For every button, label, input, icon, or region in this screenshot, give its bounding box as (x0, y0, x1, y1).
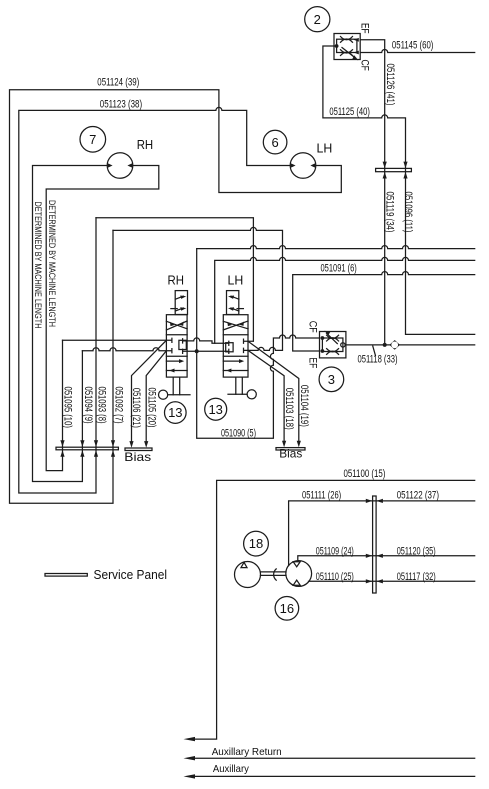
spring box LH valve (227, 291, 239, 315)
svg-text:Service Panel: Service Panel (94, 568, 168, 582)
svg-text:CF: CF (359, 60, 371, 72)
electric motor circle (component 18) (235, 562, 261, 588)
svg-text:EF: EF (306, 357, 318, 368)
wire 051091 (6) to EF port of component 3 (293, 272, 475, 351)
wire 051100 (15) (195, 480, 475, 739)
pilot port circle LH valve (247, 390, 256, 399)
parallel flow section LH (223, 361, 248, 370)
motor LH (hydraulic motor circle) (290, 153, 316, 179)
EF orifice symbol (component 3 bottom) (327, 349, 339, 355)
svg-text:051123 (38): 051123 (38) (100, 99, 142, 111)
quick disconnect symbol (389, 340, 400, 350)
valve body RH (166, 315, 187, 377)
wire 051125 (40) (323, 46, 475, 334)
arrow Auxillary Return (184, 756, 196, 760)
component 18 circle label (244, 531, 269, 556)
component U2 circle label (305, 7, 330, 32)
svg-text:2: 2 (314, 12, 321, 27)
wire 051090 (5) (197, 335, 320, 438)
directional control valve RH (159, 291, 191, 400)
svg-text:13: 13 (208, 402, 222, 417)
svg-text:DETERMINED BY MACHINE LENGTH: DETERMINED BY MACHINE LENGTH (47, 200, 57, 327)
svg-text:DETERMINED BY MACHINE LENGTH: DETERMINED BY MACHINE LENGTH (33, 202, 43, 329)
EF out arrow (component 2) (354, 38, 359, 42)
center section internals LH (226, 343, 233, 352)
spring box RH valve (175, 291, 187, 315)
bulkhead arrows on 051126 line (383, 162, 387, 169)
bias arrows (RH side) (129, 441, 133, 448)
center section internals RH (179, 340, 186, 349)
svg-text:051118 (33): 051118 (33) (358, 353, 398, 365)
wire component 3 outlet / 051118 (33) (346, 344, 475, 346)
directional control valve LH (223, 291, 256, 399)
wire Auxillary (195, 775, 475, 777)
drive shaft (261, 572, 287, 576)
valve body LH (223, 315, 248, 377)
wire 051095 loop (RH motor right to bulkhead) (46, 166, 159, 471)
svg-text:051110 (25): 051110 (25) (316, 571, 354, 583)
pump circle (component 16) (286, 561, 312, 587)
wire EF output / 051126 (41) vertical (360, 40, 385, 345)
service panel bar (56, 447, 118, 450)
bottom bulkhead bar (vertical) (373, 496, 377, 593)
shaft coupling (274, 569, 277, 580)
wire hose 051094 to RH valve lower left port (82, 348, 166, 351)
component 13 circle label (RH valve) (165, 402, 187, 424)
svg-text:051105 (20): 051105 (20) (146, 388, 158, 428)
component 13 circle label (LH valve) (205, 398, 227, 420)
svg-text:Bias: Bias (124, 450, 151, 464)
component 7 circle label (80, 127, 106, 153)
wire hose 051095 to RH valve upper left port (63, 339, 167, 341)
pilot stem LH valve (236, 377, 243, 394)
svg-text:051091 (6): 051091 (6) (321, 263, 357, 275)
parallel flow section RH (166, 361, 187, 370)
svg-text:051124 (39): 051124 (39) (97, 77, 139, 89)
bulkhead arrows 051094 line (80, 440, 84, 447)
bulkhead arrows 051095 line (60, 440, 64, 447)
crossover X section LH (223, 321, 248, 330)
svg-text:051122 (37): 051122 (37) (397, 489, 439, 501)
wire RH-LH lower connector (188, 350, 223, 352)
bias diagonal from LH lower right port (248, 350, 284, 441)
svg-text:7: 7 (89, 132, 96, 147)
svg-text:051125 (40): 051125 (40) (329, 106, 370, 118)
bias diagonal from RH lower port (146, 351, 166, 442)
pilot stem RH valve (173, 377, 180, 395)
CF variable orifice symbol (component 3 top) (324, 331, 338, 344)
bulkhead arrows 051093 line (94, 440, 98, 447)
CF variable orifice symbol (component 2 bottom) (341, 48, 359, 61)
component 16 circle label (275, 597, 299, 621)
svg-text:051104 (19): 051104 (19) (298, 385, 310, 427)
svg-text:051145 (60): 051145 (60) (392, 40, 434, 52)
svg-text:CF: CF (306, 321, 318, 333)
bulkhead arrows on 051111 line (366, 499, 373, 503)
svg-text:051100 (15): 051100 (15) (344, 468, 386, 480)
wire 051145 (60) (360, 50, 475, 53)
svg-text:LH: LH (228, 273, 244, 287)
leader line 051118 (373, 346, 376, 355)
svg-text:16: 16 (280, 601, 294, 616)
svg-text:051092 (7): 051092 (7) (112, 387, 124, 424)
svg-text:Bias: Bias (279, 447, 302, 461)
bias arrows (LH side) (282, 441, 286, 448)
bias bar (RH side) (125, 448, 152, 451)
arrow at end of 051100 wire (184, 737, 196, 741)
bulkhead arrows 051092 line (111, 440, 115, 447)
svg-text:051109 (24): 051109 (24) (316, 545, 354, 557)
svg-text:051111 (26): 051111 (26) (302, 489, 341, 501)
wire L1: hose 051093 to LH valve upper right port (96, 218, 253, 341)
wire from junction to L3 gallery (196, 249, 198, 352)
svg-text:LH: LH (317, 141, 333, 155)
svg-text:051117 (32): 051117 (32) (397, 571, 436, 583)
wire 051123 (38) / 051093 loop (LH motor left to bulkhead) (19, 107, 291, 493)
node: component 2 inlet junction dot (335, 44, 339, 48)
svg-text:051126 (41): 051126 (41) (384, 64, 396, 106)
svg-text:Auxillary Return: Auxillary Return (212, 746, 282, 758)
node: component 3 CF inlet dot (321, 336, 325, 340)
svg-text:051095 (10): 051095 (10) (62, 387, 74, 428)
svg-text:051119 (34): 051119 (34) (383, 192, 395, 233)
component 3 circle label (319, 367, 344, 392)
svg-text:051120 (35): 051120 (35) (397, 545, 436, 557)
node junction dot between valves (195, 349, 199, 353)
svg-text:13: 13 (168, 405, 182, 420)
wire 051111 (26) (289, 501, 475, 566)
svg-text:3: 3 (328, 372, 335, 387)
component 6 circle label (263, 130, 287, 154)
flow divider valve box (component 2) (334, 34, 360, 60)
wire 051124 (39) / 051092 loop (LH motor right to bulkhead) (10, 90, 342, 504)
bulkhead arrows on 051125 line (403, 162, 407, 169)
bulkhead connector bar (top right service panel) (376, 168, 412, 171)
wire L4: valve gallery to right edge (215, 257, 475, 343)
bias bar (LH side) (276, 448, 305, 450)
svg-text:18: 18 (249, 536, 263, 551)
wire L3: center gallery to right edge (197, 246, 475, 249)
svg-text:RH: RH (168, 273, 185, 287)
svg-text:051094 (9): 051094 (9) (82, 387, 94, 424)
arrow Auxillary (184, 774, 196, 778)
wire 051109 (24) (298, 556, 475, 561)
svg-text:EF: EF (359, 23, 371, 34)
bias diagonal from RH upper port (132, 340, 167, 441)
EF orifice symbol (component 2 top) (341, 37, 353, 43)
service panel legend bar (45, 574, 87, 577)
wire 051094 loop (RH motor left to bulkhead) (33, 166, 108, 482)
wire 051110 (25) (309, 580, 475, 582)
svg-text:051103 (18): 051103 (18) (283, 388, 295, 430)
svg-text:6: 6 (271, 135, 278, 150)
wire Auxillary Return (195, 757, 475, 759)
bias diagonal from LH upper right port (248, 341, 299, 441)
svg-text:RH: RH (137, 138, 154, 152)
svg-text:Auxillary: Auxillary (213, 763, 250, 775)
svg-text:051106 (21): 051106 (21) (130, 388, 142, 428)
crossover X section RH (166, 321, 187, 330)
component 3 outlet circle (341, 343, 345, 347)
wire RH-LH upper connector (188, 338, 223, 343)
wire L2: hose 051092 to LH valve lower right port (113, 227, 283, 350)
node: component 3 EF inlet dot (321, 349, 325, 353)
pilot port circle RH valve (159, 390, 168, 399)
CF out arrow (component 2) (354, 51, 359, 55)
motor RH (hydraulic motor circle) (107, 153, 133, 179)
node junction dot on outlet wire (383, 343, 387, 347)
svg-text:051093 (8): 051093 (8) (95, 387, 107, 424)
bulkhead arrows on 051110 line (366, 579, 373, 583)
svg-text:051096 (11): 051096 (11) (402, 192, 414, 233)
svg-text:051090 (5): 051090 (5) (221, 427, 256, 439)
bulkhead arrows on 051109 line (366, 554, 373, 558)
flow divider valve box (component 3) (320, 332, 346, 358)
